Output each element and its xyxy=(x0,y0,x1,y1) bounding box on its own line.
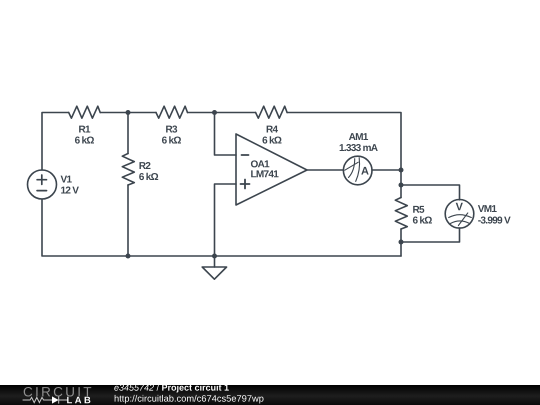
voltage source V1 plus sign xyxy=(37,175,46,184)
wire VM1 bottom branch xyxy=(401,228,460,242)
wire right vertical to R5 xyxy=(400,170,402,198)
wire left rail top xyxy=(42,113,69,171)
node C junction dot xyxy=(399,168,404,173)
footer url text xyxy=(115,395,264,404)
wire R3 to node B xyxy=(188,112,215,114)
label R3 xyxy=(166,126,177,133)
label R5 xyxy=(413,206,424,213)
wire node A to R3 xyxy=(128,112,156,114)
label AM1 xyxy=(349,133,368,140)
op-amp OA1 minus sign xyxy=(242,154,249,156)
wire R2 bottom xyxy=(127,185,129,256)
ammeter AM1 letter A xyxy=(361,167,368,175)
wire bottom rail xyxy=(42,199,401,256)
voltmeter VM1 needle xyxy=(458,213,467,226)
voltmeter VM1 body xyxy=(445,200,474,229)
voltmeter VM1 gauge arcs xyxy=(449,215,472,218)
wire R2 top xyxy=(127,113,129,154)
node E junction dot xyxy=(399,240,404,245)
ground symbol xyxy=(202,267,226,279)
wire non-inverting input xyxy=(215,184,237,256)
resistor R4 xyxy=(256,106,288,118)
node F junction dot (ground) xyxy=(212,254,217,259)
wire R1 to node A xyxy=(100,112,128,114)
ammeter AM1 needle xyxy=(345,162,359,170)
wire op-amp output xyxy=(307,169,343,171)
node B junction dot xyxy=(212,110,217,115)
voltmeter VM1 letter V xyxy=(456,203,463,211)
label R2 xyxy=(139,162,150,169)
ammeter AM1 gauge arcs xyxy=(349,159,355,178)
logo word CIRCUIT xyxy=(24,387,92,397)
resistor R3 xyxy=(156,106,188,118)
node A junction dot xyxy=(126,110,131,115)
wire R4 to right vertical xyxy=(287,113,401,171)
voltage source V1 body xyxy=(28,170,57,199)
wire AM1 to node C xyxy=(372,169,401,171)
op-amp OA1 plus sign xyxy=(241,180,250,189)
resistor R1 xyxy=(69,106,101,118)
wire node B to R4 xyxy=(215,112,256,114)
wire VM1 top branch xyxy=(401,185,460,200)
label R4 xyxy=(267,126,278,133)
label V1 xyxy=(61,176,72,183)
label R1 xyxy=(79,126,90,133)
logo resistor-diode glyph xyxy=(23,396,68,403)
ammeter AM1 body xyxy=(343,156,372,185)
wire inverting input xyxy=(215,113,237,156)
node G junction dot xyxy=(126,254,131,259)
wire R5 bottom xyxy=(400,229,402,256)
node D junction dot xyxy=(399,183,404,188)
footer bar xyxy=(0,385,540,405)
label VM1 xyxy=(478,205,497,212)
footer title text xyxy=(114,384,154,390)
logo word LAB xyxy=(67,397,90,404)
op-amp OA1 body xyxy=(236,134,307,205)
ground stem xyxy=(214,256,216,267)
label OA1 xyxy=(251,160,269,167)
voltage source V1 minus sign xyxy=(37,190,46,192)
resistor R2 xyxy=(122,154,134,186)
resistor R5 xyxy=(395,198,407,230)
